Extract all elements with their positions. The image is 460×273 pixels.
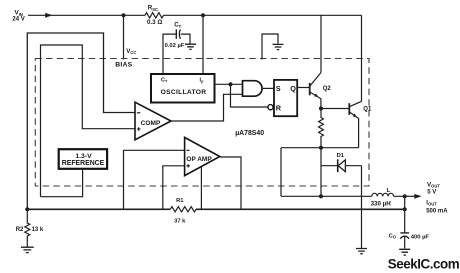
- resistor RSC value labels: [147, 5, 162, 26]
- wire feedback loop to COMP inverting input: [27, 33, 135, 209]
- junction output node dot: [403, 194, 407, 198]
- wire feedback rail B: [27, 208, 404, 210]
- junction feedback tap dot: [403, 207, 407, 211]
- junction oscillator output dot: [228, 82, 232, 86]
- svg-text:REFERENCE: REFERENCE: [62, 160, 105, 167]
- ground CT: [185, 44, 196, 49]
- ground IC: [273, 44, 284, 49]
- svg-text:R1: R1: [176, 198, 184, 204]
- resistor Q2 emitter: [319, 109, 324, 148]
- svg-text:CO: CO: [389, 233, 397, 239]
- junction VCC node dot: [121, 13, 125, 17]
- svg-text:OP AMP: OP AMP: [186, 156, 212, 163]
- resistor R2 labels: [16, 227, 44, 233]
- transistor Q1: [349, 101, 361, 147]
- wire oscillator output: [215, 83, 243, 85]
- svg-text:Q: Q: [290, 84, 296, 93]
- svg-text:500 mA: 500 mA: [426, 209, 448, 215]
- resistor R2: [25, 209, 30, 247]
- wire emitter node horizontal: [281, 147, 359, 149]
- svg-text:RSC: RSC: [148, 5, 158, 12]
- wire emitter node down to switch rail: [280, 148, 282, 197]
- svg-text:37 k: 37 k: [174, 219, 186, 225]
- IC part number label: [235, 130, 264, 137]
- node VCC label: [126, 48, 136, 55]
- svg-text:CT: CT: [174, 23, 181, 29]
- latch SR flip-flop: [268, 80, 297, 116]
- wire VCC to BIAS pin: [123, 15, 125, 59]
- wire COMP output to AND gate: [171, 94, 243, 121]
- arrowhead output: [405, 194, 422, 199]
- svg-text:COMP: COMP: [141, 120, 161, 127]
- svg-text:S: S: [276, 84, 281, 93]
- wire op-amp output: [220, 157, 241, 209]
- ground D1: [356, 249, 367, 254]
- svg-text:D1: D1: [337, 153, 345, 159]
- resistor R1: [170, 207, 196, 212]
- wire top supply rail: [28, 14, 362, 16]
- inductor L: [372, 193, 394, 196]
- node VOUT labels: [426, 181, 448, 214]
- svg-text:VCC: VCC: [126, 48, 136, 55]
- oscillator block: [151, 74, 215, 103]
- node BIAS label: [115, 62, 132, 69]
- svg-text:13 k: 13 k: [32, 227, 44, 233]
- op-amp OP AMP: [185, 137, 220, 175]
- inductor L labels: [371, 188, 392, 208]
- 1.3-V reference block: [59, 149, 107, 169]
- svg-text:SeekIC.com: SeekIC.com: [388, 256, 460, 271]
- junction resistor bottom node dot: [319, 146, 323, 150]
- wire output column: [404, 196, 406, 248]
- capacitor CO: [400, 233, 409, 239]
- svg-text:L: L: [387, 188, 391, 194]
- AND gate: [243, 81, 263, 97]
- watermark SeekIC.com: [388, 256, 460, 271]
- svg-text:VOUT: VOUT: [427, 181, 440, 188]
- wire switch node vertical D1 cathode tap: [320, 148, 322, 197]
- resistor RSC: [145, 13, 163, 18]
- junction Ip pin dot: [201, 13, 205, 17]
- svg-text:µA78S40: µA78S40: [235, 130, 264, 137]
- wire IC ground pin: [262, 34, 278, 60]
- wire Q2 collector to rail: [320, 15, 322, 72]
- diode D1 label: [337, 153, 345, 159]
- junction Q2 emitter node dot: [319, 106, 323, 110]
- svg-text:24 V: 24 V: [12, 17, 24, 23]
- ground CO: [399, 249, 410, 255]
- node VIN input labels: [12, 10, 24, 23]
- wire Q2 emitter node to Q1 base: [321, 108, 349, 110]
- svg-text:R: R: [276, 104, 282, 113]
- svg-text:IOUT: IOUT: [426, 200, 437, 206]
- wire op-amp bottom pin stub: [200, 167, 202, 210]
- junction rail A diode tap dot: [319, 194, 323, 198]
- wire AND output to latch S input: [262, 87, 274, 89]
- wire switch rail A: [281, 195, 405, 197]
- wire op-amp inverting input stub: [124, 150, 185, 209]
- svg-text:Q1: Q1: [363, 107, 372, 113]
- svg-text:CT: CT: [161, 78, 168, 84]
- resistor R1 labels: [174, 198, 186, 225]
- svg-text:Ip: Ip: [200, 78, 205, 84]
- diode D1: [321, 159, 362, 172]
- capacitor CT: [163, 29, 190, 74]
- 1.3-V reference text: [62, 153, 105, 167]
- svg-text:400 µF: 400 µF: [411, 234, 430, 240]
- wire D1 anode to ground: [361, 166, 363, 249]
- wire latch Q output to Q2 base: [297, 87, 310, 89]
- svg-text:5 V: 5 V: [427, 189, 436, 195]
- svg-text:BIAS: BIAS: [115, 62, 132, 69]
- svg-text:330 µH: 330 µH: [371, 201, 392, 208]
- IC package boundary dashed: [35, 59, 369, 187]
- wire Q1 collector to rail corner: [361, 15, 363, 101]
- op-amp COMP comparator: [135, 102, 171, 140]
- svg-text:Q2: Q2: [323, 86, 332, 92]
- svg-text:0.02 µF: 0.02 µF: [165, 43, 185, 49]
- wire Ip pin: [202, 15, 204, 74]
- svg-text:OSCILLATOR: OSCILLATOR: [161, 89, 207, 96]
- transistor Q1 label: [363, 107, 372, 113]
- arrowhead VIN current direction: [45, 13, 52, 18]
- svg-text:1.3-V: 1.3-V: [75, 153, 92, 160]
- capacitor CT labels: [165, 23, 185, 49]
- transistor Q2: [310, 73, 321, 109]
- svg-text:R2: R2: [16, 227, 24, 233]
- svg-text:0.3 Ω: 0.3 Ω: [147, 19, 162, 26]
- capacitor CO labels: [389, 233, 430, 240]
- ground R2: [21, 247, 34, 252]
- wire oscillator to latch R input: [231, 84, 269, 107]
- transistor Q2 label: [323, 86, 332, 92]
- junction R2 node dot: [25, 207, 29, 211]
- wire op-amp non-inverting input stub: [163, 166, 185, 210]
- wire reference loop to COMP non-inverting input: [41, 45, 136, 197]
